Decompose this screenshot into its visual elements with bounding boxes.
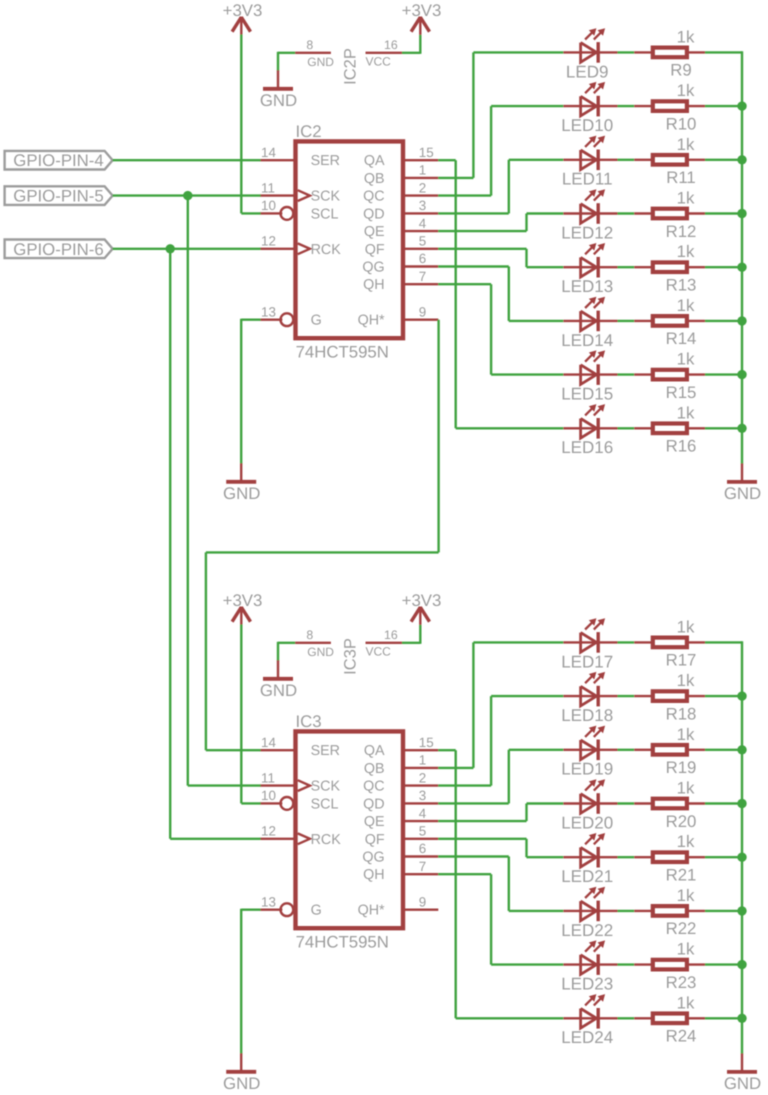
svg-text:12: 12 bbox=[261, 824, 276, 839]
svg-text:1k: 1k bbox=[677, 403, 695, 422]
svg-text:LED9: LED9 bbox=[566, 62, 609, 81]
svg-text:QG: QG bbox=[362, 850, 384, 866]
svg-text:14: 14 bbox=[261, 735, 276, 750]
svg-text:12: 12 bbox=[261, 234, 276, 249]
svg-text:QB: QB bbox=[364, 761, 385, 777]
svg-text:15: 15 bbox=[419, 145, 434, 160]
svg-text:1k: 1k bbox=[677, 242, 695, 261]
svg-text:QA: QA bbox=[364, 743, 385, 759]
svg-text:LED24: LED24 bbox=[561, 1028, 613, 1047]
svg-text:SER: SER bbox=[311, 153, 340, 169]
svg-text:IC2: IC2 bbox=[296, 122, 322, 141]
svg-text:R17: R17 bbox=[666, 651, 697, 670]
svg-text:LED23: LED23 bbox=[561, 975, 613, 994]
svg-text:R14: R14 bbox=[666, 329, 697, 348]
svg-text:GND: GND bbox=[307, 645, 334, 659]
svg-text:1k: 1k bbox=[677, 81, 695, 100]
svg-text:3: 3 bbox=[419, 788, 426, 803]
svg-text:R10: R10 bbox=[666, 114, 697, 133]
svg-text:LED10: LED10 bbox=[561, 116, 613, 135]
svg-text:QD: QD bbox=[363, 796, 384, 812]
svg-text:QE: QE bbox=[364, 224, 385, 240]
svg-text:1k: 1k bbox=[677, 779, 695, 798]
svg-text:GND: GND bbox=[223, 1074, 260, 1093]
svg-text:GPIO-PIN-5: GPIO-PIN-5 bbox=[13, 187, 103, 206]
svg-text:6: 6 bbox=[419, 841, 426, 856]
svg-text:11: 11 bbox=[261, 180, 275, 195]
svg-text:GPIO-PIN-4: GPIO-PIN-4 bbox=[13, 151, 103, 170]
svg-text:SER: SER bbox=[311, 743, 340, 759]
svg-text:VCC: VCC bbox=[366, 645, 392, 659]
svg-text:4: 4 bbox=[419, 806, 427, 821]
svg-text:R13: R13 bbox=[666, 276, 697, 295]
svg-text:R18: R18 bbox=[666, 704, 697, 723]
svg-text:QC: QC bbox=[363, 779, 384, 795]
svg-text:LED14: LED14 bbox=[561, 331, 613, 350]
svg-text:RCK: RCK bbox=[311, 832, 342, 848]
svg-text:QF: QF bbox=[365, 242, 385, 258]
svg-text:1k: 1k bbox=[677, 993, 695, 1012]
svg-text:QD: QD bbox=[363, 206, 384, 222]
svg-text:QH*: QH* bbox=[358, 313, 385, 329]
svg-text:R11: R11 bbox=[666, 168, 696, 187]
svg-text:R12: R12 bbox=[666, 222, 697, 241]
svg-text:QC: QC bbox=[363, 189, 384, 205]
svg-text:1: 1 bbox=[419, 753, 426, 768]
svg-text:GND: GND bbox=[260, 681, 297, 700]
svg-text:QH*: QH* bbox=[358, 903, 385, 919]
svg-text:RCK: RCK bbox=[311, 242, 342, 258]
svg-text:GND: GND bbox=[307, 55, 334, 69]
svg-text:7: 7 bbox=[419, 859, 426, 874]
svg-text:4: 4 bbox=[419, 216, 427, 231]
svg-text:3: 3 bbox=[419, 198, 426, 213]
svg-text:LED13: LED13 bbox=[561, 277, 613, 296]
svg-text:1k: 1k bbox=[677, 671, 695, 690]
svg-text:IC3: IC3 bbox=[296, 712, 322, 731]
svg-text:13: 13 bbox=[261, 304, 276, 319]
svg-text:8: 8 bbox=[306, 628, 313, 642]
svg-text:LED20: LED20 bbox=[561, 813, 613, 832]
svg-text:7: 7 bbox=[419, 269, 426, 284]
svg-text:LED18: LED18 bbox=[561, 706, 613, 725]
svg-text:VCC: VCC bbox=[366, 55, 392, 69]
svg-text:IC3P: IC3P bbox=[341, 638, 359, 675]
svg-text:LED21: LED21 bbox=[561, 867, 613, 886]
svg-text:1: 1 bbox=[419, 163, 426, 178]
svg-text:10: 10 bbox=[261, 198, 276, 213]
svg-text:10: 10 bbox=[261, 788, 276, 803]
svg-text:5: 5 bbox=[419, 234, 426, 249]
svg-text:QH: QH bbox=[363, 867, 384, 883]
svg-text:QB: QB bbox=[364, 171, 385, 187]
svg-text:74HCT595N: 74HCT595N bbox=[296, 343, 389, 362]
svg-text:R15: R15 bbox=[666, 383, 697, 402]
svg-text:8: 8 bbox=[306, 38, 313, 52]
svg-text:QA: QA bbox=[364, 153, 385, 169]
svg-text:1k: 1k bbox=[677, 189, 695, 208]
svg-text:GND: GND bbox=[724, 1074, 761, 1093]
svg-text:QF: QF bbox=[365, 832, 385, 848]
svg-text:1k: 1k bbox=[677, 135, 695, 154]
svg-text:R22: R22 bbox=[666, 919, 697, 938]
svg-text:1k: 1k bbox=[677, 296, 695, 315]
svg-text:G: G bbox=[311, 903, 322, 919]
svg-text:SCK: SCK bbox=[311, 779, 341, 795]
svg-text:2: 2 bbox=[419, 180, 426, 195]
svg-text:LED11: LED11 bbox=[562, 170, 613, 189]
svg-text:R16: R16 bbox=[666, 437, 697, 456]
svg-text:R23: R23 bbox=[666, 973, 697, 992]
svg-text:QE: QE bbox=[364, 814, 385, 830]
svg-text:5: 5 bbox=[419, 824, 426, 839]
svg-text:1k: 1k bbox=[677, 832, 695, 851]
svg-text:GPIO-PIN-6: GPIO-PIN-6 bbox=[13, 240, 103, 259]
svg-text:1k: 1k bbox=[677, 886, 695, 905]
svg-text:74HCT595N: 74HCT595N bbox=[296, 933, 389, 952]
svg-text:6: 6 bbox=[419, 251, 426, 266]
svg-text:SCK: SCK bbox=[311, 189, 341, 205]
svg-text:13: 13 bbox=[261, 894, 276, 909]
svg-text:SCL: SCL bbox=[311, 796, 339, 812]
svg-text:GND: GND bbox=[260, 91, 297, 110]
svg-text:R9: R9 bbox=[670, 61, 691, 80]
svg-text:1k: 1k bbox=[677, 617, 695, 636]
svg-text:LED12: LED12 bbox=[561, 223, 613, 242]
svg-text:16: 16 bbox=[384, 628, 398, 642]
svg-text:R24: R24 bbox=[666, 1027, 697, 1046]
svg-text:GND: GND bbox=[724, 484, 761, 503]
svg-text:2: 2 bbox=[419, 770, 426, 785]
svg-text:LED16: LED16 bbox=[561, 438, 613, 457]
svg-text:GND: GND bbox=[223, 484, 260, 503]
svg-text:QG: QG bbox=[362, 260, 384, 276]
svg-text:LED19: LED19 bbox=[561, 760, 613, 779]
svg-text:SCL: SCL bbox=[311, 206, 339, 222]
svg-text:QH: QH bbox=[363, 277, 384, 293]
svg-text:14: 14 bbox=[261, 145, 276, 160]
svg-text:R19: R19 bbox=[666, 758, 697, 777]
svg-text:R20: R20 bbox=[666, 812, 697, 831]
svg-text:16: 16 bbox=[384, 38, 398, 52]
svg-text:LED15: LED15 bbox=[561, 385, 613, 404]
svg-text:G: G bbox=[311, 313, 322, 329]
svg-text:9: 9 bbox=[419, 304, 426, 319]
svg-text:LED17: LED17 bbox=[561, 652, 613, 671]
svg-text:9: 9 bbox=[419, 894, 426, 909]
svg-text:1k: 1k bbox=[677, 350, 695, 369]
svg-text:1k: 1k bbox=[677, 725, 695, 744]
svg-text:R21: R21 bbox=[666, 866, 697, 885]
svg-text:11: 11 bbox=[261, 770, 275, 785]
svg-text:15: 15 bbox=[419, 735, 434, 750]
svg-text:1k: 1k bbox=[677, 27, 695, 46]
svg-text:IC2P: IC2P bbox=[341, 48, 359, 85]
svg-text:1k: 1k bbox=[677, 940, 695, 959]
svg-text:LED22: LED22 bbox=[561, 921, 613, 940]
